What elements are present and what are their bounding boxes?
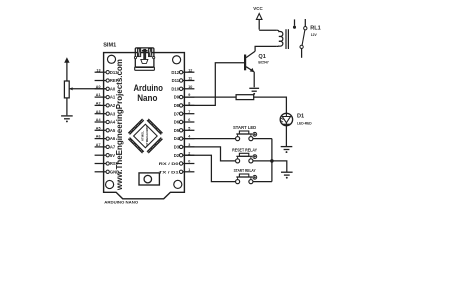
svg-text:D1: D1 — [297, 114, 304, 120]
svg-text:A4: A4 — [110, 120, 116, 125]
svg-text:A7: A7 — [110, 144, 116, 149]
svg-text:VCC: VCC — [253, 6, 262, 11]
svg-text:LED-RED: LED-RED — [297, 121, 312, 125]
svg-text:A1: A1 — [96, 93, 101, 97]
svg-text:10: 10 — [188, 85, 192, 89]
svg-text:D11: D11 — [172, 78, 180, 83]
svg-text:TX / D1: TX / D1 — [159, 169, 180, 174]
svg-text:SIM1: SIM1 — [103, 43, 116, 49]
svg-text:D5: D5 — [174, 128, 180, 133]
svg-text:ARDUINO NANO: ARDUINO NANO — [104, 199, 138, 204]
svg-text:13: 13 — [96, 68, 100, 72]
svg-text:D8: D8 — [174, 103, 180, 108]
svg-text:11: 11 — [188, 77, 192, 81]
svg-text:0: 0 — [188, 160, 190, 164]
svg-text:D6: D6 — [174, 120, 180, 125]
svg-text:6: 6 — [188, 118, 190, 122]
svg-text:D13: D13 — [110, 70, 118, 75]
svg-text:A6: A6 — [110, 136, 116, 141]
svg-text:A2: A2 — [110, 103, 116, 108]
svg-text:5V: 5V — [110, 153, 115, 158]
svg-text:A2: A2 — [96, 102, 101, 106]
svg-text:A5: A5 — [110, 128, 116, 133]
svg-text:ATMEGA328P: ATMEGA328P — [145, 126, 149, 146]
svg-text:D12: D12 — [171, 70, 179, 75]
svg-text:BC547: BC547 — [258, 61, 268, 65]
svg-text:D3: D3 — [174, 144, 180, 149]
svg-text:D10: D10 — [171, 86, 179, 91]
svg-text:12: 12 — [188, 68, 192, 72]
svg-text:A6: A6 — [96, 135, 101, 139]
svg-text:5: 5 — [188, 126, 190, 130]
svg-text:A0: A0 — [110, 86, 116, 91]
svg-text:RX / D0: RX / D0 — [159, 161, 180, 166]
svg-text:A3: A3 — [96, 110, 101, 114]
svg-text:Nano: Nano — [137, 92, 157, 103]
svg-text:RESET RELAY: RESET RELAY — [232, 147, 257, 152]
svg-text:D4: D4 — [174, 136, 180, 141]
svg-text:A3: A3 — [110, 111, 116, 116]
svg-text:7: 7 — [188, 110, 190, 114]
svg-text:GND: GND — [110, 169, 119, 174]
svg-text:START RELAY: START RELAY — [234, 168, 256, 173]
svg-text:RST: RST — [110, 161, 119, 166]
svg-text:Q1: Q1 — [258, 54, 265, 60]
svg-text:D7: D7 — [174, 111, 180, 116]
svg-text:12V: 12V — [311, 33, 318, 37]
svg-text:D2: D2 — [174, 153, 180, 158]
svg-text:D9: D9 — [174, 95, 180, 100]
svg-text:START LED: START LED — [233, 125, 256, 130]
svg-text:A1: A1 — [110, 95, 116, 100]
svg-text:1: 1 — [188, 168, 190, 172]
svg-text:A7: A7 — [96, 143, 101, 147]
svg-text:RL1: RL1 — [310, 25, 321, 31]
svg-text:REF: REF — [110, 78, 119, 83]
svg-text:A5: A5 — [96, 126, 101, 130]
